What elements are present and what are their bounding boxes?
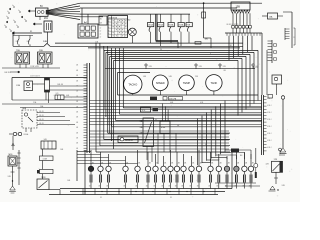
black connector block: [153, 108, 159, 112]
wire top y4: [80, 2, 262, 4]
svg-text:TANK: TANK: [211, 81, 218, 85]
svg-text:41B 4: 41B 4: [267, 133, 271, 135]
right edge wire: [291, 12, 293, 48]
svg-text:30: 30: [160, 49, 162, 51]
svg-text:4a: 4a: [16, 25, 18, 27]
svg-text:B1: B1: [230, 45, 232, 47]
svg-text:58: 58: [100, 23, 102, 25]
svg-text:41B 4: 41B 4: [267, 119, 271, 121]
svg-text:4B: 4B: [228, 163, 230, 165]
relay F30: [24, 81, 33, 91]
connector 34B: [41, 141, 56, 149]
svg-text:4B: 4B: [200, 163, 202, 165]
tiny arrows top-left: [9, 8, 11, 10]
wire top y8: [80, 7, 237, 9]
svg-text:248: 248: [16, 41, 19, 43]
bottom bus lines: [60, 188, 232, 190]
tick marks on bottom buses: [82, 189, 84, 195]
svg-text:41B 4: 41B 4: [267, 112, 271, 114]
svg-text:1 CR: 1 CR: [43, 159, 48, 161]
bold feed wire pair: [155, 14, 157, 40]
svg-text:x0: x0: [100, 28, 102, 30]
svg-text:31: 31: [100, 197, 102, 199]
far right vertical: [282, 95, 284, 148]
long wire y48: [88, 47, 240, 49]
mid bundle from stabilizer area: [146, 147, 148, 161]
center drop bundle: [95, 43, 97, 152]
svg-text:1B: 1B: [146, 186, 148, 188]
cluster connector strip left: [86, 63, 88, 153]
sender 178 box: [272, 161, 283, 172]
connector small: [195, 42, 201, 45]
svg-text:x0: x0: [100, 37, 102, 39]
long wire y43: [55, 42, 243, 44]
svg-text:1B: 1B: [189, 186, 191, 188]
svg-text:4B: 4B: [192, 163, 194, 165]
misc symbols top-left margin: [13, 6, 15, 8]
svg-text:1B: 1B: [175, 186, 177, 188]
indicator box 79B: [15, 52, 30, 64]
label BEB: [231, 149, 239, 153]
switch contact b: [29, 36, 31, 40]
svg-text:16B 31B: 16B 31B: [4, 72, 11, 74]
relay output wires: [37, 112, 60, 114]
switch contact a: [18, 36, 20, 40]
svg-text:1B: 1B: [98, 186, 100, 188]
svg-text:x0: x0: [100, 31, 102, 33]
svg-text:x: x: [100, 159, 101, 161]
relay 80B dashed: [22, 110, 37, 128]
svg-text:1B: 1B: [153, 186, 155, 188]
right staircase to lamps: [225, 149, 251, 151]
svg-text:4a: 4a: [7, 11, 9, 13]
ignition switch table: [108, 16, 128, 38]
svg-text:4B: 4B: [237, 163, 239, 165]
svg-text:241: 241: [56, 93, 59, 95]
svg-text:4B: 4B: [178, 163, 180, 165]
svg-text:41B 4: 41B 4: [267, 105, 271, 107]
wire 31: [12, 32, 42, 34]
svg-text:4a: 4a: [4, 25, 6, 27]
svg-text:1/15A: 1/15A: [148, 24, 154, 27]
svg-text:SENSOR: SENSOR: [125, 140, 134, 142]
sensor M26: [8, 156, 17, 166]
svg-text:30: 30: [100, 19, 102, 21]
svg-text:x1: x1: [120, 50, 122, 52]
comb top right: [284, 28, 286, 40]
sensor chain x42: [41, 149, 43, 156]
svg-text:1B: 1B: [161, 186, 163, 188]
gauge SPEED: [153, 75, 169, 91]
small connector: [268, 95, 273, 99]
svg-text:41B 4: 41B 4: [267, 98, 271, 100]
svg-text:1B: 1B: [181, 186, 183, 188]
svg-text:4a: 4a: [6, 16, 8, 18]
right bundle going to bottom: [224, 101, 226, 153]
gauge TACHO: [124, 75, 142, 93]
indicator box 19B: [38, 52, 53, 64]
ground bottom right: [280, 148, 286, 152]
wires to cluster left: [50, 85, 88, 87]
relay box right: [272, 75, 282, 84]
feed 30 with fuse: [203, 2, 205, 4]
svg-text:4B: 4B: [184, 163, 186, 165]
svg-text:14B 4B: 14B 4B: [57, 84, 64, 86]
wires below indicators: [19, 64, 21, 68]
svg-text:1B: 1B: [106, 186, 108, 188]
connector 8/90: [13, 132, 16, 135]
gauge base line: [118, 94, 259, 96]
long wire y46 with peak: [13, 45, 44, 47]
svg-text:4a: 4a: [24, 19, 26, 21]
gauge feed wire: [105, 68, 255, 70]
speed sensor pill: [118, 136, 138, 143]
terminal base line: [225, 32, 262, 34]
right bus vertical: [261, 33, 263, 95]
svg-text:x: x: [210, 53, 211, 55]
terminal squares: [232, 26, 235, 29]
svg-text:115 B 142 B: 115 B 142 B: [30, 76, 41, 78]
vertical right of lamps: [255, 148, 257, 163]
gauge bottom drops: [132, 94, 134, 96]
right connector strip: [261, 95, 263, 155]
sensor M28: [37, 179, 49, 190]
left edge vertical: [11, 78, 13, 101]
ballast resistor: [45, 78, 50, 92]
connector 241: [55, 95, 64, 100]
wire top y17 short: [80, 16, 103, 18]
svg-text:4B: 4B: [252, 163, 254, 165]
relay 291: [44, 21, 52, 32]
svg-text:4B: 4B: [156, 163, 158, 165]
comb terminal strip: [271, 40, 273, 63]
drop to block A4: [81, 8, 83, 24]
svg-text:31: 31: [170, 197, 172, 199]
svg-text:1B: 1B: [89, 186, 91, 188]
svg-text:15B: 15B: [236, 6, 241, 9]
wire top y14: [80, 13, 190, 15]
svg-text:TEMP: TEMP: [183, 81, 190, 85]
labels under gauges: [150, 97, 157, 101]
svg-text:4a: 4a: [9, 29, 11, 31]
svg-text:41B 4: 41B 4: [267, 147, 271, 149]
connector 53: [36, 8, 49, 16]
svg-text:1B: 1B: [208, 186, 210, 188]
svg-text:1B: 1B: [123, 186, 125, 188]
svg-text:4B: 4B: [164, 163, 166, 165]
odometer box: [141, 107, 151, 112]
unit 4/58: [160, 121, 170, 134]
svg-text:4a: 4a: [12, 5, 14, 7]
fuse 15A right: [262, 15, 268, 17]
svg-text:12: 12: [293, 37, 295, 39]
svg-text:115B 142B: 115B 142B: [30, 66, 40, 68]
tacho frame: [117, 73, 119, 96]
scan noise specks: [97, 32, 98, 33]
lower band wires: [90, 130, 230, 132]
wire below M26 to ground: [12, 166, 14, 186]
wires down from unit: [232, 13, 234, 25]
svg-text:4a: 4a: [13, 20, 15, 22]
gauge TANK: [206, 75, 222, 91]
key switch: [129, 28, 137, 36]
wires to right connector strip: [90, 100, 262, 102]
svg-text:243: 243: [27, 41, 30, 43]
svg-text:8/15A: 8/15A: [168, 24, 174, 27]
svg-text:41B 4: 41B 4: [267, 126, 271, 128]
wire and ground under 178: [275, 172, 277, 184]
aux box left of table: [99, 16, 107, 25]
gauge TEMP: [179, 75, 195, 91]
svg-text:1B: 1B: [216, 186, 218, 188]
svg-text:4B: 4B: [171, 163, 173, 165]
svg-text:41B 4: 41B 4: [267, 140, 271, 142]
voltage stabilizer: [143, 118, 154, 147]
svg-text:24B: 24B: [43, 41, 47, 43]
wire fan from connector 53: [48, 3, 80, 10]
svg-text:79B: 79B: [16, 50, 20, 52]
svg-text:4B: 4B: [220, 163, 222, 165]
left staircase to lamps: [77, 151, 91, 153]
switch box left edge: [12, 33, 14, 46]
svg-text:4: 4: [205, 144, 206, 146]
svg-text:1B: 1B: [135, 186, 137, 188]
svg-text:x0: x0: [100, 34, 102, 36]
svg-text:458 LFB: 458 LFB: [169, 98, 177, 100]
svg-text:TACHO: TACHO: [128, 83, 137, 87]
svg-text:8/90A: 8/90A: [24, 133, 29, 136]
svg-text:4B: 4B: [149, 163, 151, 165]
svg-text:7/15A: 7/15A: [158, 24, 164, 27]
wire 21A: [2, 103, 87, 105]
svg-text:1B: 1B: [197, 186, 199, 188]
fuse group 1: [150, 14, 152, 22]
svg-text:2/15A: 2/15A: [178, 24, 184, 27]
svg-text:4B: 4B: [211, 163, 213, 165]
lamp row with connectors: [90, 150, 92, 166]
unit 15B top right: [231, 2, 250, 10]
svg-text:1B: 1B: [168, 186, 170, 188]
svg-text:4B: 4B: [245, 163, 247, 165]
svg-text:4a: 4a: [18, 10, 20, 12]
svg-text:4B: 4B: [138, 163, 140, 165]
wire y77: [12, 77, 87, 79]
dashed arrow: [10, 71, 20, 73]
tick column: [18, 150, 20, 185]
bracket: [294, 28, 296, 45]
svg-text:SPEED: SPEED: [156, 81, 165, 85]
connector block A4: [78, 24, 98, 38]
nested U wire bundle: [251, 36, 253, 51]
